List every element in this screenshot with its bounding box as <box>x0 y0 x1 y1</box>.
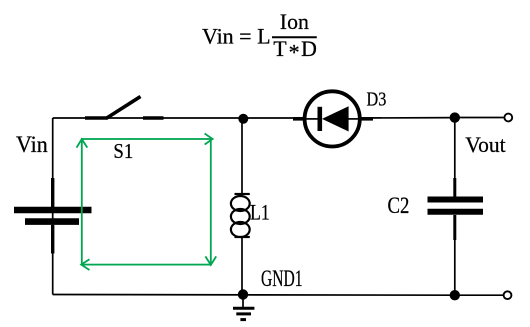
svg-text:D3: D3 <box>367 89 387 111</box>
svg-text:Vin: Vin <box>16 132 48 157</box>
svg-text:Vout: Vout <box>465 132 505 157</box>
svg-text:GND1: GND1 <box>261 266 303 292</box>
svg-text:L1: L1 <box>250 200 270 225</box>
svg-text:Ion: Ion <box>280 9 309 34</box>
svg-text:T: T <box>273 36 287 61</box>
svg-text:D: D <box>301 36 317 61</box>
svg-text:S1: S1 <box>113 139 133 163</box>
svg-text:Vin = L: Vin = L <box>202 23 271 48</box>
svg-text:*: * <box>289 40 300 65</box>
svg-text:C2: C2 <box>388 193 410 219</box>
